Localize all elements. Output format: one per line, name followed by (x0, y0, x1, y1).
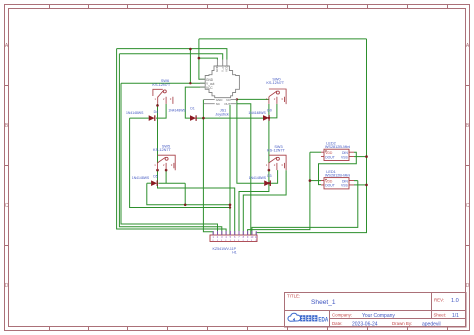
svg-text:DIN: DIN (342, 179, 348, 183)
connector H1 body (210, 235, 257, 242)
junction SW5 pin1 (156, 169, 159, 172)
wire VDD rail to connector pin9 (248, 152, 310, 235)
frame row letters left (5, 43, 9, 289)
svg-text:1N4148WS: 1N4148WS (248, 111, 266, 115)
wire Y_out row (121, 82, 205, 84)
switch SW5 pin numbers (154, 163, 172, 167)
diode D5 (151, 180, 157, 186)
svg-text:1N4148WS: 1N4148WS (249, 176, 267, 180)
svg-text:Sheet_1: Sheet_1 (311, 299, 336, 306)
diode D1 (190, 115, 196, 121)
junction bus1 D5 branch (184, 204, 187, 207)
svg-text:Company:: Company: (332, 313, 352, 318)
wire LED2 VSS to GND spine (354, 156, 367, 158)
switch SW5 symbol (158, 155, 176, 170)
wire LED2 VDD feed (310, 151, 321, 153)
wire LED1 VSS to GND spine (354, 184, 367, 186)
EDA logo cloud icon (288, 313, 301, 321)
diode D3 (264, 180, 270, 186)
EDA logo text (stylized CJK blocks + EDA) (300, 315, 317, 321)
LED1 pin stubs (321, 181, 354, 185)
svg-text:D0: D0 (267, 109, 271, 113)
frame column ticks top (50, 5, 448, 9)
wire net A to joystick top pin3 (117, 49, 227, 60)
diode D0 (263, 115, 269, 121)
joystick top pin stubs (217, 60, 227, 67)
frame column ticks bottom (50, 327, 448, 331)
svg-text:H1: H1 (232, 251, 237, 255)
wire GND right spine (256, 39, 366, 235)
svg-text:Joystick: Joystick (215, 113, 229, 117)
svg-text:VCC: VCC (225, 65, 229, 72)
wire joystick OUT down to connector (237, 104, 251, 235)
joystick left pin stubs (200, 79, 205, 87)
svg-text:Date:: Date: (332, 321, 343, 326)
wire D5 cathode riser to SW5 pin2 (165, 170, 167, 183)
svg-text:GND: GND (215, 65, 219, 73)
wire NC branch down to D3 anode (237, 99, 264, 183)
svg-text:KS-12N7T: KS-12N7T (267, 148, 285, 152)
svg-text:DIN: DIN (342, 151, 348, 155)
wire VCC to diode D1 anode (185, 87, 205, 118)
svg-text:OUT: OUT (224, 102, 231, 106)
svg-text:1N4148WS: 1N4148WS (132, 176, 150, 180)
svg-text:D: D (5, 283, 9, 289)
wire node2 branch to joystick top pin1 (199, 58, 218, 59)
LED1 pin1 mark (325, 179, 326, 180)
svg-text:C: C (466, 203, 470, 209)
frame row ticks right (466, 86, 470, 246)
connector H1 pin numbers (212, 235, 258, 239)
junction SW6 pin1 (156, 104, 159, 107)
svg-text:EDA: EDA (318, 317, 328, 323)
svg-text:KS-12N7T: KS-12N7T (266, 81, 284, 85)
wire D4 anode rail to bus2 (130, 118, 230, 207)
wire D0 cathode to SW0 pin2 (269, 104, 277, 118)
svg-text:VCC: VCC (206, 86, 213, 90)
wire SW5 pin1 to connector pin6 (158, 170, 235, 235)
junction D0 cathode column (268, 117, 270, 119)
svg-text:Sheet:: Sheet: (434, 313, 447, 318)
svg-text:KS-12N7T: KS-12N7T (152, 83, 170, 87)
switch SW6 pin numbers (155, 97, 172, 101)
joystick lower-left pin stubs (204, 100, 215, 104)
svg-text:2023-06-24: 2023-06-24 (352, 321, 378, 327)
svg-text:KS-12N7T: KS-12N7T (153, 148, 171, 152)
wire net B left rail to connector pin3 (119, 54, 221, 235)
svg-text:D3: D3 (267, 174, 271, 178)
svg-text:apedevil: apedevil (422, 321, 441, 327)
junction node3 (202, 117, 205, 120)
joystick top pin names (rotated) (215, 65, 229, 73)
svg-text:Your Company: Your Company (362, 313, 395, 319)
svg-text:DOUT: DOUT (325, 155, 335, 159)
frame row letters right (466, 43, 470, 289)
wire joystick GND pin to top bus (199, 39, 205, 79)
frame row ticks left (5, 86, 9, 246)
svg-text:REV:: REV: (434, 298, 444, 303)
switch SW0 pin numbers (266, 97, 284, 101)
junction joystick NC branch (236, 98, 238, 100)
switch SW3 symbol (269, 155, 286, 170)
svg-text:WS2812B-Mini: WS2812B-Mini (325, 145, 350, 149)
LED2 pin1 mark (325, 150, 326, 151)
junction SW3 cathode column (268, 182, 270, 184)
svg-text:VSS: VSS (341, 184, 349, 188)
svg-text:VSS: VSS (341, 155, 349, 159)
wire node3 up to joystick lower GND stub (202, 100, 204, 119)
wire D1 cathode row to D0 anode (195, 117, 263, 119)
svg-text:TITLE:: TITLE: (287, 294, 300, 299)
wire GND top bus (199, 38, 367, 40)
wire SW3 pin1 col to connector pin7 (239, 170, 269, 235)
junction node1 (189, 48, 192, 51)
junction LED1 VDD (309, 179, 312, 182)
junction SW5 pin2 (165, 169, 168, 172)
wire D4 cathode to SW6 pin2 (156, 104, 166, 118)
wire net B to joystick top pin2 (119, 54, 222, 60)
wire LED2 DIN loop to LED1 DOUT (319, 152, 357, 184)
svg-text:DOUT: DOUT (325, 184, 335, 188)
diode D4 (149, 115, 155, 121)
junction LED1 VSS (365, 184, 368, 187)
LED2 body (324, 149, 349, 160)
wire column SW0 pin1 to SW3 pin1 (268, 104, 270, 163)
title block outline (285, 293, 467, 328)
LED2 pin stubs (321, 152, 354, 156)
LED1 body (324, 178, 349, 189)
junction bus2 end (229, 206, 231, 208)
junction node1-Yout (189, 82, 191, 84)
wire column SW6 pin1 to SW5 pin1 (157, 104, 159, 163)
wire LED1 DIN to connector pin10 (252, 181, 358, 235)
wire D3 cathode to SW3 pin2 (271, 170, 278, 183)
svg-text:1.0: 1.0 (451, 298, 459, 304)
wire D5 anode rail bus1 (147, 183, 230, 205)
svg-text:1N4148WS: 1N4148WS (168, 109, 186, 113)
svg-text:D4: D4 (154, 110, 158, 114)
svg-text:D1: D1 (190, 107, 194, 111)
switch SW0 symbol (269, 89, 286, 104)
wire D5 cathode branch down to bus1 (184, 183, 186, 205)
svg-text:1/1: 1/1 (452, 313, 459, 319)
wire D4 anode feed (130, 117, 149, 119)
svg-text:Drawn By:: Drawn By: (392, 321, 412, 326)
wire net A left rail to connector pin4 (117, 49, 227, 235)
joystick U1 body (205, 66, 239, 98)
wire node1 branch down to Y_out row (189, 49, 191, 83)
wire node3 down to connector pin1 (203, 118, 213, 235)
svg-text:D5: D5 (153, 175, 157, 179)
svg-text:WS2812B-Mini: WS2812B-Mini (325, 174, 350, 178)
connector H1 pin name marks (213, 240, 256, 241)
svg-text:D: D (466, 283, 470, 289)
junction SW3 pin1 (268, 169, 271, 172)
svg-text:1N4148WS: 1N4148WS (126, 111, 144, 115)
wire LED1 VDD feed (310, 180, 321, 182)
wire SW3 bracket to connector pin8 (243, 170, 286, 235)
junction node2 (198, 57, 201, 60)
wire D5 cathode row (158, 182, 185, 184)
svg-text:C: C (5, 203, 9, 209)
wire Y_out left rail to connector pin2 (121, 83, 218, 235)
junction bus1 end (229, 204, 232, 207)
connector H1 pin stubs (213, 231, 256, 235)
wire D5 anode feed (147, 182, 151, 184)
joystick lower-right pin stubs (231, 100, 237, 104)
wire joystick bottom pin to connector pin5 (229, 105, 231, 235)
wire joystick NC to SW0 pin1 (237, 98, 269, 100)
switch SW6 symbol (153, 89, 173, 104)
junction LED2 VSS (365, 155, 368, 158)
switch SW3 pin numbers (266, 163, 284, 167)
